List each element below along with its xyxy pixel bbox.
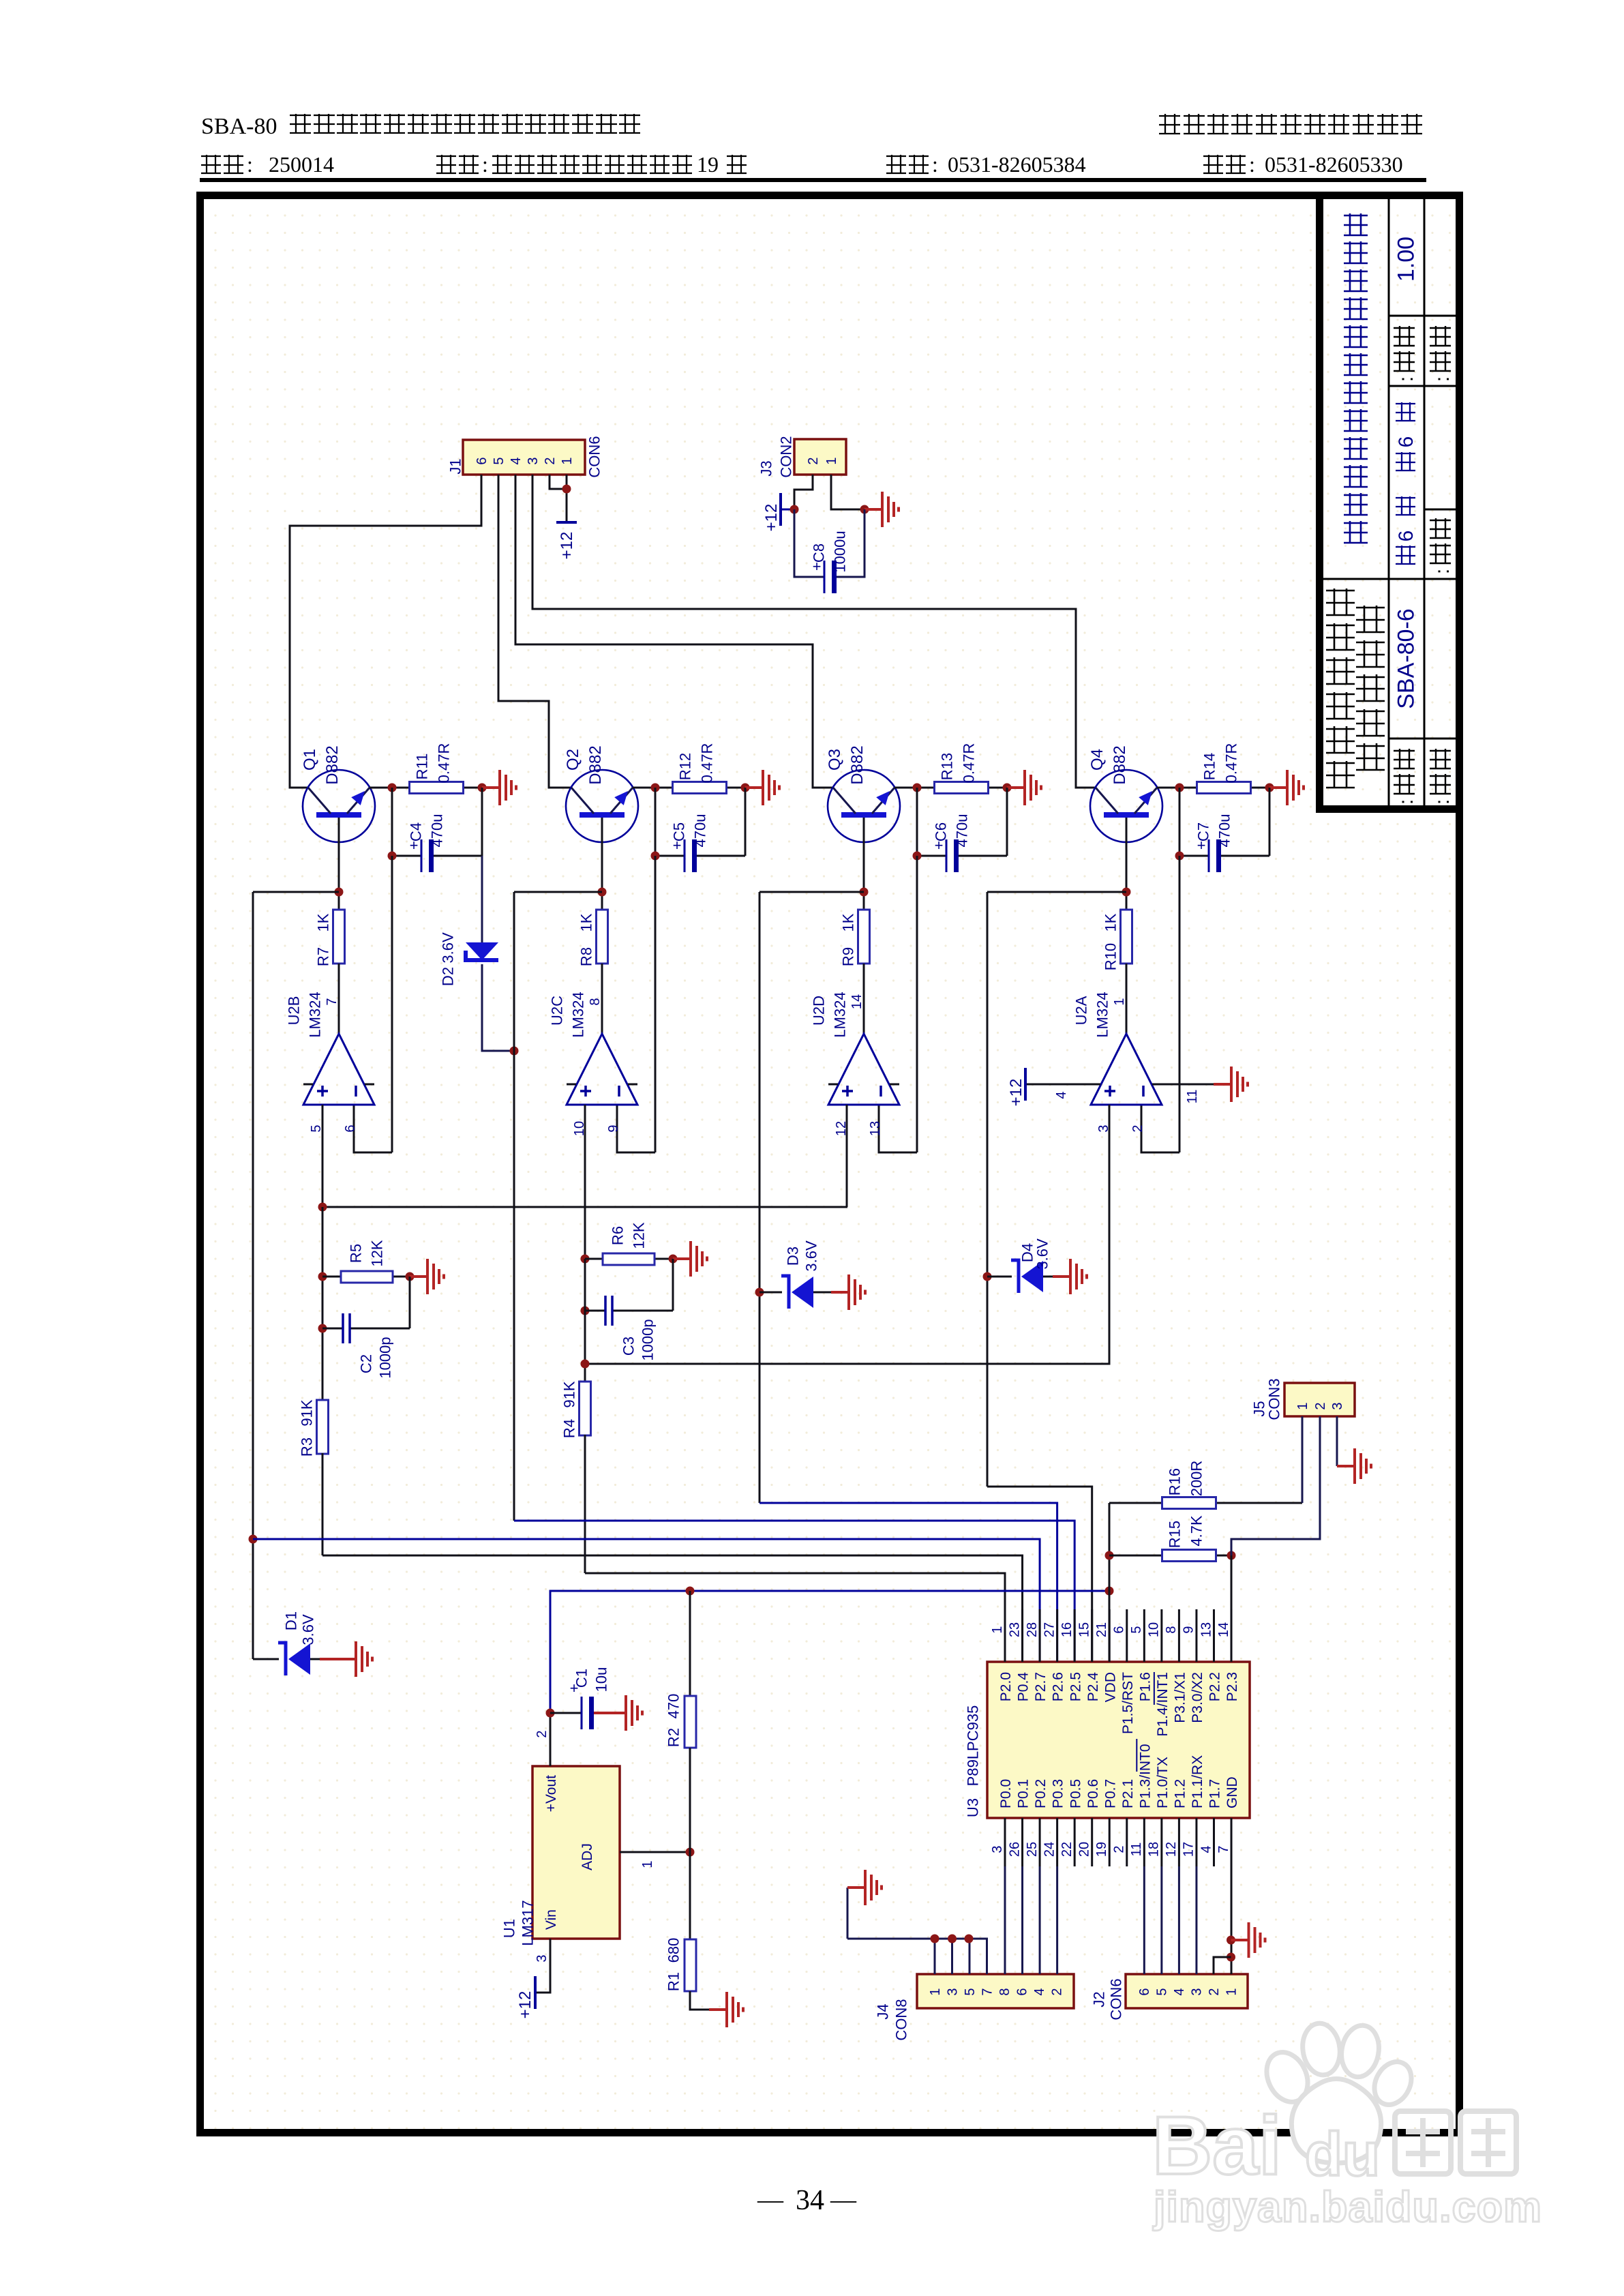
pin stub U3 bottom 17 (P1.1/RX) bbox=[1195, 1818, 1197, 1866]
power +12 at J3 bbox=[779, 493, 782, 526]
wire P1.3,P1.0,P1.2,P1.1 to J2 bbox=[1143, 1866, 1145, 1974]
wire base feedback left bbox=[987, 891, 1126, 893]
svg-text:6: 6 bbox=[1395, 436, 1417, 448]
transistor Q2 D882 bbox=[566, 770, 638, 842]
svg-text:3: 3 bbox=[526, 457, 541, 464]
svg-text:P0.7: P0.7 bbox=[1102, 1779, 1118, 1808]
svg-text:470u: 470u bbox=[428, 814, 445, 848]
svg-text:2: 2 bbox=[806, 457, 821, 464]
node R15 right bbox=[1227, 1551, 1236, 1560]
svg-text:0.47R: 0.47R bbox=[960, 743, 977, 784]
pin stub U3 bottom 7 (GND) bbox=[1231, 1818, 1233, 1866]
svg-text:P0.1: P0.1 bbox=[1016, 1779, 1032, 1808]
svg-text:du: du bbox=[1305, 2121, 1380, 2189]
svg-text:R2: R2 bbox=[665, 1728, 682, 1747]
svg-text:18: 18 bbox=[1147, 1842, 1162, 1857]
power +12 at U1 bbox=[534, 1976, 537, 2009]
svg-text:LM324: LM324 bbox=[569, 992, 586, 1037]
node GND ground tap bbox=[1227, 1936, 1235, 1945]
resistor R2 470 bbox=[689, 1591, 691, 1696]
resistor R13 0.47R bbox=[935, 782, 989, 794]
resistor R14 0.47R bbox=[1197, 782, 1251, 794]
wire rail D ch1 to P2.7 bbox=[253, 1539, 1040, 1662]
svg-text:8: 8 bbox=[1164, 1626, 1179, 1633]
svg-text:7: 7 bbox=[1216, 1845, 1231, 1853]
svg-text:J4: J4 bbox=[874, 2003, 891, 2019]
svg-text:Bai: Bai bbox=[1152, 2099, 1282, 2192]
svg-text:14: 14 bbox=[1216, 1622, 1231, 1637]
watermark jingyan CJK bbox=[1395, 2111, 1516, 2174]
svg-text:R5: R5 bbox=[347, 1244, 364, 1263]
svg-text:3.6V: 3.6V bbox=[802, 1240, 819, 1272]
capacitor C3 1000p bbox=[585, 1310, 605, 1312]
capacitor C4 470u bbox=[392, 855, 421, 857]
wire non-inverting reference rail bbox=[322, 1105, 324, 1207]
wire J1 pin5 to Q2 collector bbox=[498, 475, 571, 788]
resistor R10 1K bbox=[1121, 910, 1132, 964]
wire op-amp output to R bbox=[601, 964, 603, 1034]
wire inverting column down to op-amp bbox=[391, 856, 393, 1152]
svg-text:R9: R9 bbox=[839, 947, 856, 966]
svg-text:0.47R: 0.47R bbox=[435, 743, 452, 784]
svg-text:2: 2 bbox=[1207, 1988, 1222, 1995]
wire Q2 base to R bbox=[601, 818, 603, 910]
wire op-amp output to R bbox=[1126, 964, 1128, 1034]
wire J3 pin2 to +12 node bbox=[794, 475, 813, 509]
svg-text:4: 4 bbox=[1172, 1988, 1187, 1995]
svg-text:P0.6: P0.6 bbox=[1085, 1779, 1101, 1808]
svg-text:4: 4 bbox=[1054, 1091, 1069, 1099]
svg-text:C7: C7 bbox=[1194, 822, 1212, 841]
svg-text:1: 1 bbox=[1295, 1402, 1310, 1410]
wire R6/C3 right link bbox=[672, 1259, 674, 1311]
wire R1 bottom to ground bbox=[690, 1991, 709, 2010]
svg-text:+12: +12 bbox=[1007, 1079, 1025, 1107]
op-amp U2C LM324 bbox=[567, 1034, 637, 1105]
wire U2A V+ pin4 to +12 bbox=[1025, 1084, 1091, 1086]
resistor R1 680 bbox=[689, 1852, 691, 1939]
svg-text:15: 15 bbox=[1077, 1622, 1092, 1637]
svg-text:P0.3: P0.3 bbox=[1051, 1779, 1066, 1808]
svg-text:9: 9 bbox=[1182, 1626, 1197, 1633]
svg-text:P1.2: P1.2 bbox=[1173, 1779, 1188, 1808]
wire ch3 feedback vertical bbox=[759, 892, 761, 1503]
svg-text::: : bbox=[1249, 152, 1255, 177]
zener diode D4 3.6V bbox=[987, 1276, 1012, 1278]
resistor R16 200R bbox=[1109, 1502, 1163, 1504]
wire inverting column down to op-amp bbox=[916, 856, 918, 1152]
svg-text:2: 2 bbox=[1049, 1988, 1064, 1995]
svg-text:jingyan.baidu.com: jingyan.baidu.com bbox=[1153, 2183, 1542, 2231]
node R5 right bbox=[406, 1272, 415, 1281]
node J1 +12 junction bbox=[562, 485, 571, 494]
wire cap right column bbox=[481, 788, 483, 856]
node Q3 emitter bbox=[913, 784, 922, 792]
svg-text:R6: R6 bbox=[609, 1226, 626, 1245]
wire rail C ch2 to P2.5 bbox=[514, 1521, 1074, 1662]
svg-text::: : bbox=[482, 152, 488, 177]
svg-text::: : bbox=[1431, 799, 1454, 805]
svg-text:P0.2: P0.2 bbox=[1033, 1779, 1049, 1808]
ground at D3 bbox=[831, 1274, 865, 1310]
svg-text:1: 1 bbox=[928, 1988, 943, 1995]
wire base feedback left bbox=[760, 891, 864, 893]
wire Q4 emitter row bbox=[1157, 787, 1179, 789]
svg-text:—: — bbox=[830, 2186, 857, 2214]
svg-text:LM317: LM317 bbox=[519, 1900, 536, 1945]
capacitor C7 470u bbox=[1179, 855, 1209, 857]
pin stub U3 top 13 (P2.2) bbox=[1213, 1609, 1215, 1662]
node J4 pin3 bbox=[948, 1935, 957, 1943]
svg-text:U2A: U2A bbox=[1072, 996, 1089, 1025]
title block: 版本: bbox=[1394, 326, 1415, 371]
svg-text:R8: R8 bbox=[577, 947, 595, 966]
svg-text:16: 16 bbox=[1059, 1622, 1074, 1637]
svg-text:13: 13 bbox=[1199, 1622, 1214, 1637]
wire J4 ground riser bbox=[847, 1888, 849, 1939]
wire op-amp output to R bbox=[338, 964, 340, 1034]
svg-text:470u: 470u bbox=[1216, 814, 1233, 848]
svg-text:R13: R13 bbox=[938, 753, 955, 780]
pin stub U3 bottom 19 (P0.7) bbox=[1109, 1818, 1111, 1866]
svg-text::: : bbox=[247, 152, 253, 177]
wire base feedback left bbox=[514, 891, 602, 893]
svg-text:R14: R14 bbox=[1201, 753, 1218, 780]
svg-text:LM324: LM324 bbox=[1094, 992, 1111, 1037]
svg-text:4: 4 bbox=[1199, 1845, 1214, 1853]
wire R4 bottom to rail F bbox=[584, 1435, 586, 1573]
wire ch1 feedback vertical bbox=[252, 892, 254, 1659]
svg-text:R15: R15 bbox=[1166, 1521, 1183, 1548]
svg-text:1: 1 bbox=[990, 1626, 1005, 1633]
svg-text:470u: 470u bbox=[691, 814, 708, 848]
svg-text:ADJ: ADJ bbox=[580, 1843, 595, 1870]
op-amp U2D LM324 bbox=[828, 1034, 899, 1105]
title block: institute name (rotated CJK 2 lines) bbox=[1326, 588, 1355, 788]
wire rail B ch3 to P2.6 bbox=[760, 1503, 1057, 1662]
header line 1 right: institute name bbox=[1159, 114, 1422, 134]
svg-text:8: 8 bbox=[588, 998, 603, 1005]
node J4 pin1 bbox=[931, 1935, 939, 1943]
svg-text:470u: 470u bbox=[953, 814, 970, 848]
microcontroller U3 P89LPC935 bbox=[987, 1662, 1250, 1818]
capacitor C5 470u bbox=[655, 855, 685, 857]
node rail G VDD bbox=[1105, 1587, 1114, 1596]
svg-text:SBA-80-6: SBA-80-6 bbox=[1394, 608, 1419, 709]
ground at R13 bbox=[1007, 770, 1041, 805]
svg-text:6: 6 bbox=[1137, 1988, 1152, 1995]
wire Q3 emitter row bbox=[894, 787, 917, 789]
connector J2 CON6 bbox=[1126, 1974, 1248, 2008]
svg-text:12: 12 bbox=[1164, 1842, 1179, 1857]
capacitor C1 10u bbox=[550, 1712, 582, 1714]
pin stub U3 bottom 12 (P1.2) bbox=[1178, 1818, 1180, 1866]
ground at J5 bbox=[1337, 1448, 1371, 1484]
wire U2A pin3 down bbox=[585, 1105, 1109, 1364]
node R6 right bbox=[669, 1255, 678, 1264]
wire rail F R4 to P2.0 bbox=[585, 1573, 1005, 1662]
regulator U1 LM317 bbox=[532, 1766, 620, 1939]
svg-text:19: 19 bbox=[697, 152, 719, 177]
svg-text::: : bbox=[1431, 376, 1454, 382]
wire cap right column bbox=[1269, 788, 1271, 856]
svg-text:CON8: CON8 bbox=[892, 1999, 909, 2040]
connector J1 CON6 bbox=[463, 440, 585, 475]
zener diode D1 3.6V bbox=[253, 1658, 279, 1660]
svg-text::: : bbox=[1431, 569, 1454, 574]
svg-text:1: 1 bbox=[560, 457, 575, 464]
node R13 right bbox=[1003, 784, 1012, 792]
wire J1 pin3 to Q4 collector bbox=[532, 475, 1096, 788]
svg-text:P2.3: P2.3 bbox=[1224, 1672, 1240, 1701]
wire VDD column bbox=[1109, 1503, 1111, 1662]
node J4 pin5 bbox=[965, 1935, 974, 1943]
wire U1 pin2 Vout up bbox=[550, 1713, 552, 1766]
power +12 at J1 bbox=[556, 521, 577, 524]
svg-text:P1.1/RX: P1.1/RX bbox=[1190, 1755, 1205, 1808]
svg-text:9: 9 bbox=[606, 1124, 621, 1132]
node Q1 emitter bbox=[388, 784, 397, 792]
pin stub U3 top 14 (P2.3) bbox=[1231, 1609, 1233, 1662]
pin stub U3 top 5 (P1.6) bbox=[1143, 1609, 1145, 1662]
svg-text:3.6V: 3.6V bbox=[1034, 1238, 1051, 1270]
op-amp U2A LM324 bbox=[1091, 1034, 1162, 1105]
node rail G R2 tap bbox=[686, 1587, 695, 1596]
node D3 junction bbox=[755, 1288, 764, 1297]
svg-text:P2.5: P2.5 bbox=[1068, 1672, 1083, 1701]
wire emitter column to cap row bbox=[391, 788, 393, 856]
svg-text:P3.0/X2: P3.0/X2 bbox=[1190, 1672, 1205, 1723]
wire emitter column to cap row bbox=[1179, 788, 1181, 856]
wire Q4 base to R bbox=[1126, 818, 1128, 910]
svg-text:CON3: CON3 bbox=[1265, 1378, 1282, 1420]
svg-text:GND: GND bbox=[1224, 1776, 1240, 1808]
wire J1 pin2/pin1 to +12 bbox=[550, 475, 567, 489]
svg-text:P2.2: P2.2 bbox=[1207, 1672, 1223, 1701]
node C5 left bbox=[651, 852, 660, 861]
ground at D1 bbox=[320, 1641, 372, 1677]
wire cap right column bbox=[745, 788, 747, 856]
svg-text:2: 2 bbox=[1112, 1845, 1127, 1853]
svg-text:P2.6: P2.6 bbox=[1051, 1672, 1066, 1701]
node R14 right bbox=[1265, 784, 1274, 792]
svg-text:1: 1 bbox=[824, 457, 839, 464]
title block: 绘图: bbox=[1430, 518, 1451, 563]
node R5 left bbox=[318, 1272, 327, 1281]
svg-text:+Vout: +Vout bbox=[543, 1775, 559, 1812]
svg-text:CON6: CON6 bbox=[586, 436, 603, 477]
wire op-amp inverting input bbox=[617, 1105, 655, 1152]
pin stub U3 bottom 2 (P2.1) bbox=[1126, 1818, 1128, 1866]
wire rail G U1 Vout to VDD bbox=[550, 1591, 1109, 1713]
pin stub U3 bottom 25 (P0.2) bbox=[1039, 1818, 1041, 1866]
svg-text:1000p: 1000p bbox=[639, 1319, 656, 1360]
svg-text:1: 1 bbox=[640, 1860, 655, 1868]
node C6 left bbox=[913, 852, 922, 861]
svg-text:3.6V: 3.6V bbox=[439, 932, 456, 964]
resistor R7 1K bbox=[333, 910, 345, 964]
svg-text:R7: R7 bbox=[314, 947, 331, 966]
svg-text:10u: 10u bbox=[592, 1667, 610, 1693]
zener diode D3 3.6V bbox=[760, 1292, 782, 1294]
svg-text:R12: R12 bbox=[676, 753, 693, 780]
pin stub U3 top 10 (P1.4/INT1) bbox=[1160, 1609, 1162, 1662]
svg-text:4: 4 bbox=[509, 457, 524, 464]
pin stub U3 top 21 (VDD) bbox=[1109, 1609, 1111, 1662]
schematic frame border bbox=[200, 196, 1460, 2133]
svg-text:1K: 1K bbox=[839, 913, 856, 931]
svg-text:7: 7 bbox=[325, 998, 340, 1005]
wire U1 pin3 Vin to +12 bbox=[535, 1939, 550, 1993]
svg-text:91K: 91K bbox=[560, 1381, 577, 1407]
wire inverting column down to op-amp bbox=[655, 856, 657, 1152]
svg-text:20: 20 bbox=[1077, 1842, 1092, 1857]
wire R3 bottom to rail E bbox=[322, 1453, 324, 1555]
wire Q1 emitter row bbox=[370, 787, 392, 789]
node R6 left bbox=[581, 1255, 590, 1264]
svg-text:VDD: VDD bbox=[1102, 1672, 1118, 1702]
resistor R15 4.7K bbox=[1109, 1555, 1163, 1557]
pin stub U3 bottom 20 (P0.6) bbox=[1091, 1818, 1093, 1866]
svg-text:1K: 1K bbox=[314, 913, 331, 931]
svg-text:680: 680 bbox=[665, 1938, 682, 1963]
svg-text:1000p: 1000p bbox=[376, 1337, 393, 1378]
svg-text:24: 24 bbox=[1042, 1842, 1057, 1857]
svg-text::: : bbox=[1395, 799, 1417, 805]
svg-text:Vin: Vin bbox=[543, 1909, 559, 1930]
svg-text:J1: J1 bbox=[447, 458, 464, 474]
svg-text:5: 5 bbox=[963, 1988, 978, 1995]
power +12 at U2A bbox=[1024, 1068, 1027, 1101]
wire op-amp output to R bbox=[863, 964, 865, 1034]
svg-text:14: 14 bbox=[849, 994, 864, 1009]
node Q3 base bbox=[860, 888, 869, 897]
svg-text:19: 19 bbox=[1094, 1842, 1109, 1857]
svg-text:P0.4: P0.4 bbox=[1016, 1672, 1032, 1702]
wire Q1 base to R bbox=[338, 818, 340, 910]
wire J2 pin2 link bbox=[1214, 1957, 1231, 1974]
svg-text:3: 3 bbox=[945, 1988, 960, 1995]
svg-text:D1: D1 bbox=[282, 1611, 299, 1630]
node C4 left bbox=[388, 852, 397, 861]
wire base feedback left bbox=[253, 891, 339, 893]
svg-text:27: 27 bbox=[1042, 1622, 1057, 1637]
wire inverting column down to op-amp bbox=[1179, 856, 1181, 1152]
svg-text:P2.7: P2.7 bbox=[1033, 1672, 1049, 1701]
svg-text:LM324: LM324 bbox=[831, 992, 848, 1037]
svg-text:U1: U1 bbox=[500, 1919, 517, 1938]
connector J3 CON2 bbox=[794, 439, 846, 475]
svg-text:Q4: Q4 bbox=[1088, 749, 1107, 771]
svg-text:2: 2 bbox=[543, 457, 558, 464]
capacitor C6 470u bbox=[917, 855, 946, 857]
wire J1 pin4 to Q3 collector bbox=[515, 475, 834, 788]
pin stub U3 top 23 (P0.4) bbox=[1021, 1609, 1023, 1662]
svg-text:5: 5 bbox=[1154, 1988, 1169, 1995]
ground at U2A pin11 bbox=[1214, 1067, 1248, 1102]
svg-text:P1.7: P1.7 bbox=[1207, 1779, 1223, 1808]
svg-text:P2.0: P2.0 bbox=[998, 1672, 1014, 1701]
svg-text:470: 470 bbox=[665, 1694, 682, 1719]
svg-text:P0.5: P0.5 bbox=[1068, 1779, 1083, 1808]
node D4 junction bbox=[983, 1272, 992, 1281]
svg-text:C4: C4 bbox=[407, 822, 424, 841]
resistor R3 91K bbox=[317, 1400, 329, 1454]
title block: sheet title (rotated CJK) bbox=[1344, 213, 1368, 543]
svg-text:D882: D882 bbox=[586, 745, 605, 784]
svg-text::: : bbox=[1395, 376, 1417, 382]
svg-text:LM324: LM324 bbox=[306, 992, 323, 1037]
pin stub U3 top 15 (P2.4) bbox=[1091, 1609, 1093, 1662]
ground at J3 bbox=[864, 492, 899, 527]
wire J5 pin3 to ground bbox=[1336, 1416, 1338, 1466]
svg-text:22: 22 bbox=[1059, 1842, 1074, 1857]
wire J4 common pins 1,3,5,7 bbox=[847, 1939, 987, 1974]
pin stub U3 top 1 (P2.0) bbox=[1004, 1609, 1006, 1662]
svg-text:P1.6: P1.6 bbox=[1137, 1672, 1153, 1701]
wire R15 right to P2.3 bbox=[1231, 1555, 1233, 1662]
svg-text:J3: J3 bbox=[757, 460, 775, 476]
wire R6 column bbox=[584, 1259, 586, 1382]
ground at C1 bbox=[594, 1695, 642, 1731]
svg-text:21: 21 bbox=[1094, 1622, 1109, 1637]
pin stub U3 top 6 (P1.5/RST) bbox=[1126, 1609, 1128, 1662]
transistor Q4 D882 bbox=[1090, 770, 1162, 842]
svg-text:Q2: Q2 bbox=[564, 749, 582, 771]
resistor R5 12K bbox=[322, 1276, 341, 1278]
svg-text:U2B: U2B bbox=[285, 996, 302, 1026]
svg-text:1K: 1K bbox=[577, 913, 595, 931]
wire op-amp inverting input bbox=[879, 1105, 917, 1152]
wire U1 ADJ pin1 bbox=[620, 1851, 690, 1853]
wire J5 pin2 to R15/P2.3 bbox=[1231, 1416, 1320, 1555]
wire GND to J2 pin1 bbox=[1231, 1866, 1233, 1974]
schematic sheet background bbox=[200, 196, 1459, 2132]
svg-text:1.00: 1.00 bbox=[1394, 237, 1419, 282]
svg-text:2: 2 bbox=[535, 1730, 550, 1738]
svg-text:Q1: Q1 bbox=[301, 749, 319, 771]
svg-text:3: 3 bbox=[1189, 1988, 1204, 1995]
pin stub U3 top 16 (P2.5) bbox=[1074, 1609, 1076, 1662]
svg-text:6: 6 bbox=[343, 1124, 358, 1132]
svg-text:6: 6 bbox=[1395, 531, 1417, 542]
title block: 日期: bbox=[1430, 749, 1451, 794]
resistor R12 0.47R bbox=[673, 782, 727, 794]
wire op-amp inverting input bbox=[1141, 1105, 1179, 1152]
svg-text:1: 1 bbox=[1112, 998, 1127, 1005]
node Q2 base bbox=[598, 888, 607, 897]
svg-text:0.47R: 0.47R bbox=[698, 743, 715, 784]
pin stub U3 bottom 18 (P1.0/TX) bbox=[1160, 1818, 1162, 1866]
svg-text:+12: +12 bbox=[558, 532, 576, 560]
ground at R11 bbox=[482, 770, 516, 805]
pin stub U3 top 27 (P2.6) bbox=[1056, 1609, 1058, 1662]
svg-text:6: 6 bbox=[1112, 1626, 1127, 1633]
transistor Q1 D882 bbox=[303, 770, 375, 842]
svg-text:3: 3 bbox=[990, 1845, 1005, 1853]
svg-text:D882: D882 bbox=[1111, 745, 1129, 784]
svg-text:C6: C6 bbox=[932, 822, 949, 841]
header line 2: postcode / address / phone / fax bbox=[201, 155, 243, 173]
svg-text:P1.4/INT1: P1.4/INT1 bbox=[1155, 1672, 1171, 1737]
node rail U2B pin5 bbox=[318, 1203, 327, 1212]
svg-text:SBA-80: SBA-80 bbox=[201, 114, 277, 139]
svg-text:1: 1 bbox=[1224, 1988, 1239, 1995]
svg-text:R3: R3 bbox=[298, 1437, 315, 1457]
svg-text:C5: C5 bbox=[670, 822, 687, 841]
svg-text:CON6: CON6 bbox=[1107, 1978, 1124, 2020]
node ch1 feedback rail D bbox=[249, 1535, 258, 1544]
